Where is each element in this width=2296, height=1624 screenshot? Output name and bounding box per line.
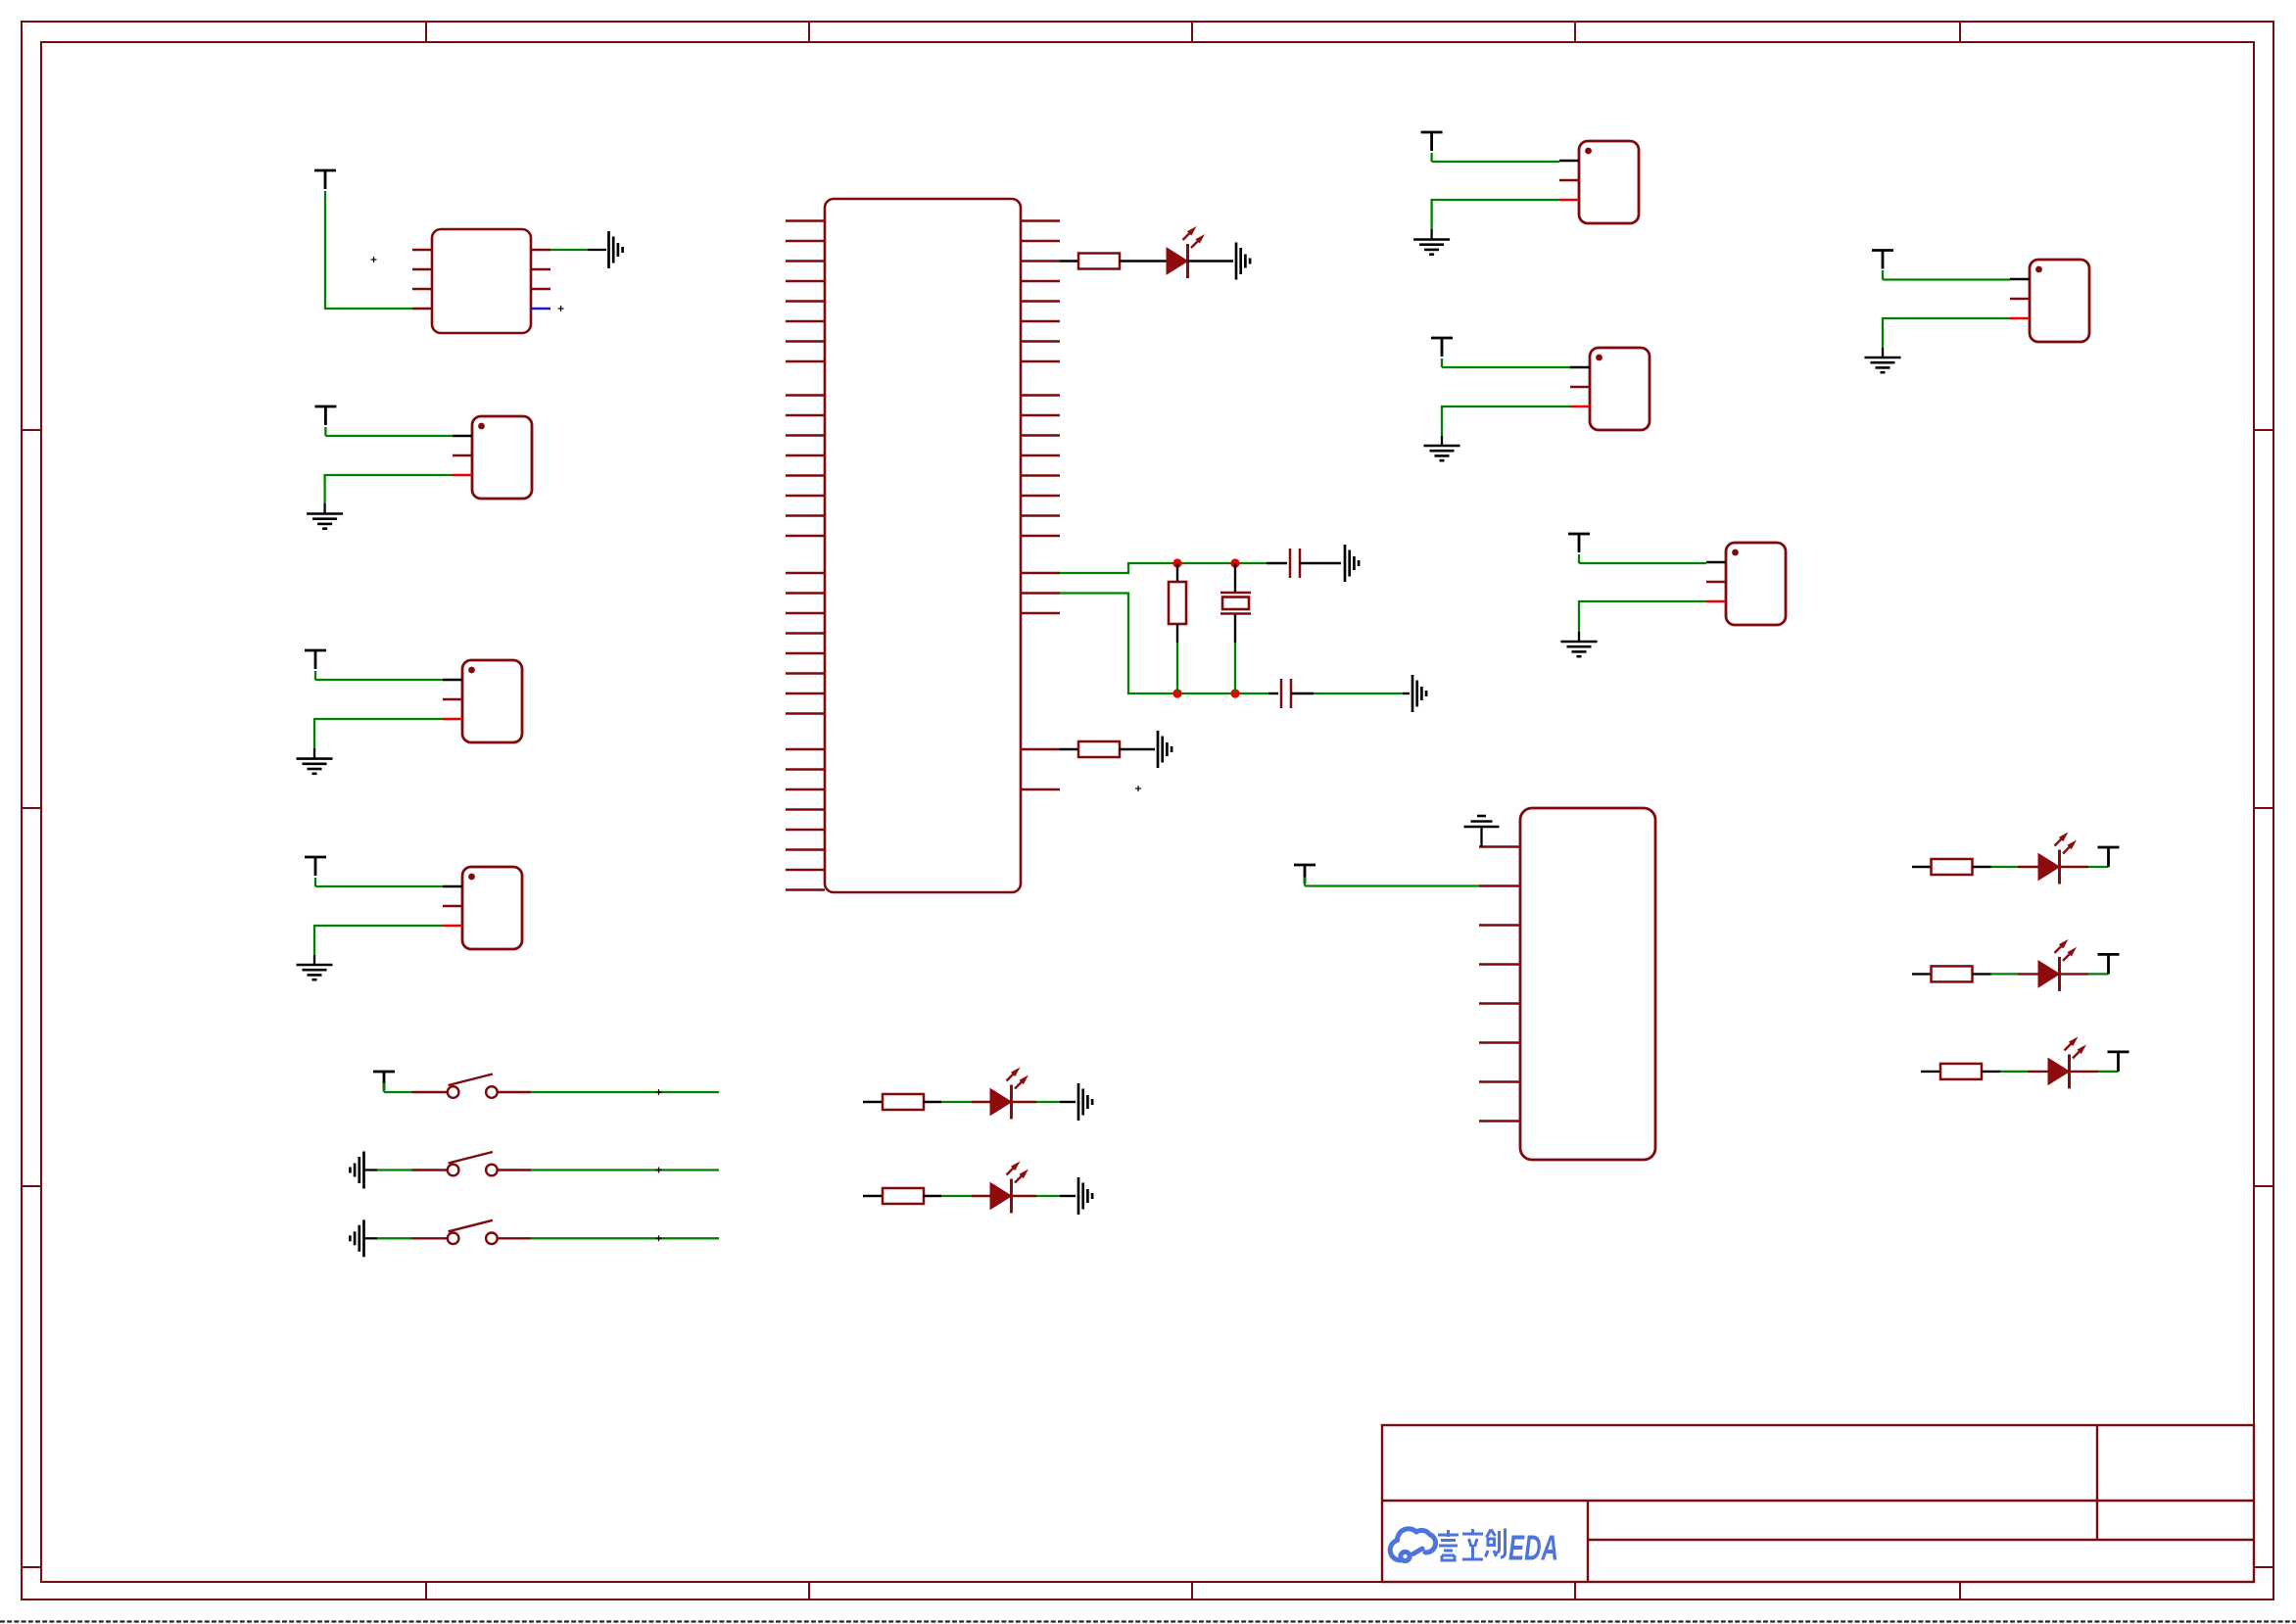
wire U1 XTAL2 net: [1060, 594, 1268, 694]
wire U1 XTAL1 net: [1060, 563, 1267, 573]
ground below J3: [297, 965, 333, 979]
svg-text:EDA: EDA: [1508, 1528, 1558, 1568]
power VCC for J2: [305, 650, 326, 669]
wire VCC to SW1: [383, 1083, 385, 1092]
wire input to R5: [863, 1195, 883, 1197]
wire R1 to D1: [1120, 260, 1167, 262]
power VCC for J1: [314, 406, 336, 425]
wire VCC to J5 pin 1: [1441, 358, 1443, 367]
U1 right pins: [1021, 221, 1060, 790]
wire input to R4: [863, 1101, 883, 1103]
wire input to R7: [1912, 973, 1932, 975]
switch SW1: [448, 1075, 498, 1098]
capacitor C2: [1281, 679, 1291, 708]
connector J5: [1590, 348, 1650, 430]
wire ground to SW3: [364, 1237, 378, 1239]
ground right of D1: [1236, 243, 1250, 280]
wire D1 to ground: [1188, 260, 1234, 262]
wire VCC to J2 pin 1: [314, 671, 316, 680]
connector J8: [1520, 808, 1655, 1160]
wire J4 pin 3 to ground: [1432, 200, 1559, 229]
wire D3 to VCC: [2060, 866, 2089, 868]
U2 blue pin stub: [531, 308, 550, 310]
led D1: [990, 1089, 1012, 1116]
J1 pin 2: [453, 454, 472, 456]
wire R6 to D3: [1973, 866, 1991, 868]
ground left of SW2: [350, 1152, 363, 1189]
switch SW2: [448, 1152, 498, 1175]
ground below J2: [297, 759, 333, 774]
J4 pin 1: [1559, 160, 1579, 162]
wire J2 pin 3 to ground: [314, 719, 443, 748]
resistor R1: [1078, 254, 1120, 269]
capacitor C1: [1290, 549, 1300, 578]
power VCC right of D4: [2098, 954, 2120, 974]
power VCC for J3: [305, 857, 326, 876]
J2 pin 1: [443, 679, 462, 681]
wire bottom rail to C2: [1268, 693, 1278, 694]
J5 pin 2: [1570, 386, 1590, 388]
power VCC for J5: [1431, 338, 1453, 357]
node plus mark left of U2: [371, 257, 377, 263]
ground at U2 right: [609, 231, 623, 268]
power VCC for U2: [314, 170, 336, 189]
wire Y1 to bottom rail: [1234, 614, 1236, 643]
junction at R2 top: [1172, 558, 1181, 567]
J3 pin 1: [443, 885, 462, 887]
J5 pin 3: [1570, 406, 1590, 407]
resistor R4: [883, 1094, 924, 1110]
connector J7: [2030, 260, 2089, 342]
ground below J4: [1413, 240, 1450, 255]
node plus mark on SW1 wire: [656, 1089, 662, 1095]
wire R2 to bottom rail: [1176, 624, 1178, 643]
junction at Y1 bottom: [1230, 689, 1239, 697]
wire top rail to C1: [1267, 562, 1287, 564]
J3 pin 2: [443, 905, 462, 907]
J6 pin 2: [1706, 581, 1726, 583]
resistor R3: [1078, 741, 1120, 757]
wire VCC to J6 pin 1: [1578, 554, 1580, 563]
resistor R8: [1940, 1064, 1982, 1079]
wire C2 to ground: [1291, 693, 1314, 694]
wire junction to R2: [1176, 563, 1178, 582]
U1 left pins: [786, 221, 825, 890]
node plus mark below R3: [1135, 786, 1141, 791]
led D4: [2038, 961, 2060, 987]
connector J6: [1726, 543, 1786, 625]
J5 pin 1: [1570, 366, 1590, 368]
power VCC for SW1: [373, 1072, 395, 1090]
wire U1 pin to R3: [1060, 748, 1078, 750]
U2 left pins: [412, 250, 432, 309]
node plus mark on SW3 wire: [656, 1235, 662, 1241]
J1 pin 1: [453, 435, 472, 437]
wire VCC to J3 pin 1: [314, 878, 316, 886]
U2 right pins: [531, 250, 550, 289]
ground above J8 pin 1: [1464, 816, 1500, 827]
wire R4 to D1: [924, 1101, 941, 1103]
J8 pins: [1479, 847, 1520, 1122]
wire D5 to VCC: [2070, 1071, 2099, 1073]
connector J4: [1579, 141, 1639, 223]
ic U2: [432, 229, 531, 333]
crystal Y1: [1220, 593, 1251, 614]
wire C1 to ground: [1300, 562, 1341, 564]
J3 pin 3: [443, 925, 462, 927]
wire SW2 to node: [498, 1169, 531, 1170]
wire SW1 to node: [498, 1091, 531, 1093]
switch SW3: [448, 1220, 498, 1244]
ground right of D1: [1078, 1083, 1092, 1121]
wire R5 to D2: [924, 1195, 941, 1197]
power VCC for J7: [1872, 251, 1893, 269]
wire input to R6: [1912, 866, 1932, 868]
junction at Y1 top: [1230, 558, 1239, 567]
power VCC for J6: [1568, 534, 1590, 552]
ground right of C1: [1345, 545, 1359, 582]
wire VCC to J1 pin 1: [324, 427, 326, 436]
wire VCC to J8 pin 2: [1304, 878, 1306, 886]
J6 pin 1: [1706, 561, 1726, 563]
ground below J6: [1561, 642, 1598, 656]
led D5: [2048, 1058, 2070, 1084]
J7 pin 3: [2010, 317, 2030, 319]
ground below J1: [307, 514, 343, 529]
wire VCC to J4 pin 1: [1430, 153, 1432, 162]
power VCC for J8 pin 2: [1294, 865, 1315, 884]
wire J3 pin 3 to ground: [314, 926, 443, 955]
power VCC right of D3: [2098, 847, 2120, 867]
wire J8 pin 1 to ground: [1480, 828, 1482, 847]
node plus mark right of U2: [558, 306, 564, 311]
led D2: [990, 1183, 1012, 1210]
wire junction to Y1: [1234, 563, 1236, 592]
node plus mark on SW2 wire: [656, 1168, 662, 1173]
J6 pin 3: [1706, 600, 1726, 602]
J7 pin 2: [2010, 298, 2030, 300]
mcu U1: [825, 199, 1021, 892]
wire D2 to ground: [1012, 1195, 1037, 1197]
ground below J5: [1424, 446, 1460, 460]
connector J1: [472, 416, 532, 499]
J2 pin 3: [443, 718, 462, 720]
wire SW3 to node: [498, 1237, 531, 1239]
resistor R7: [1932, 966, 1973, 981]
led D3: [2038, 854, 2060, 881]
wire D1 to ground: [1012, 1101, 1037, 1103]
J1 pin 3: [453, 474, 472, 476]
J2 pin 2: [443, 698, 462, 700]
wire input to R8: [1921, 1071, 1940, 1073]
resistor R5: [883, 1188, 924, 1204]
resistor R2: [1169, 582, 1186, 624]
wire D4 to VCC: [2060, 973, 2089, 975]
J4 pin 3: [1559, 199, 1579, 201]
resistor R6: [1932, 859, 1973, 875]
wire J7 pin 3 to ground: [1883, 318, 2010, 348]
power VCC for J4: [1421, 132, 1443, 151]
wire ground to SW2: [364, 1169, 378, 1170]
wire U2 pin to ground: [550, 249, 588, 251]
led D1: [1167, 248, 1188, 274]
wire R8 to D5: [1982, 1071, 2000, 1073]
junction at R2 bottom: [1172, 689, 1181, 697]
wire J5 pin 3 to ground: [1442, 406, 1570, 436]
wire VCC to J7 pin 1: [1882, 270, 1884, 280]
wire R7 to D4: [1973, 973, 1991, 975]
ground right of R3: [1158, 731, 1172, 768]
wire VCC to U2 pin 4: [325, 191, 412, 309]
J7 pin 1: [2010, 278, 2030, 280]
wire U1 pin to R1: [1060, 260, 1078, 262]
J4 pin 2: [1559, 179, 1579, 181]
ground right of C2: [1412, 675, 1426, 712]
ground right of D2: [1078, 1177, 1092, 1215]
connector J2: [462, 660, 522, 742]
wire J1 pin 3 to ground: [325, 475, 453, 503]
wire R3 to ground: [1120, 748, 1155, 750]
power VCC right of D5: [2108, 1052, 2129, 1072]
wire J6 pin 3 to ground: [1579, 601, 1706, 632]
ground left of SW3: [350, 1219, 363, 1257]
ground below J7: [1865, 358, 1901, 372]
connector J3: [462, 867, 522, 949]
